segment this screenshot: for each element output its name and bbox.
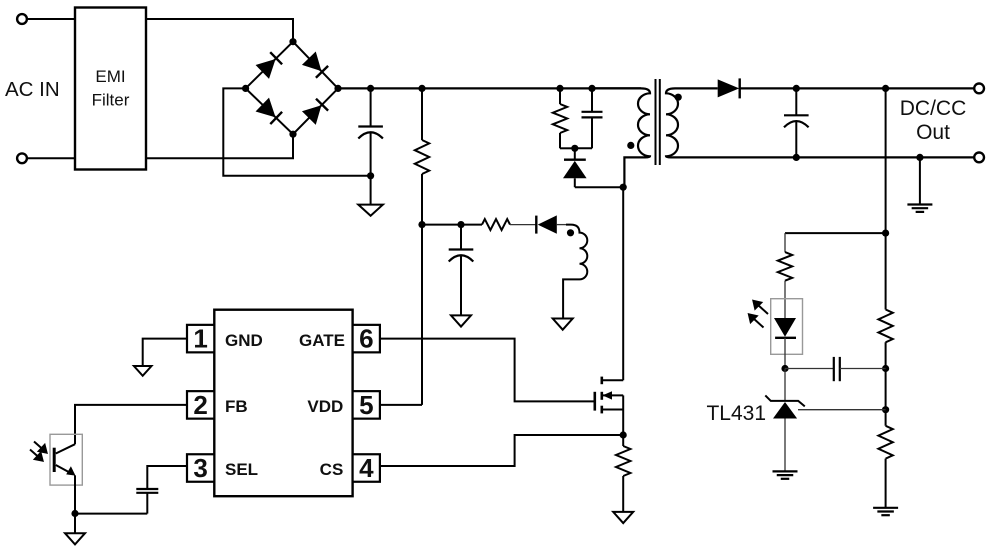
terminal DC out bottom	[974, 153, 984, 163]
transformer core	[656, 79, 660, 165]
node aux winding dot	[567, 229, 574, 236]
wire secondary return	[671, 156, 974, 158]
resistor R5 divider lower	[878, 426, 892, 459]
terminal AC line input top	[17, 14, 27, 24]
ground (sense)	[613, 512, 633, 523]
EMI filter block	[75, 8, 146, 170]
wire	[885, 459, 887, 508]
MOSFET Q2	[595, 187, 623, 435]
svg-text:SEL: SEL	[225, 460, 258, 479]
wire	[785, 232, 886, 234]
node bridge bottom	[289, 131, 296, 138]
shunt regulator TL431 U2	[765, 395, 805, 471]
wire	[421, 225, 423, 405]
wire	[510, 224, 536, 226]
wire	[146, 19, 293, 42]
capacitor C3 snubber	[575, 88, 603, 148]
node output cap bottom	[793, 154, 800, 161]
node output cap top	[793, 85, 800, 92]
diode D7 output	[718, 78, 740, 98]
node output ground junction	[916, 154, 923, 161]
label TL431	[706, 402, 766, 425]
optocoupler LED box	[771, 299, 803, 355]
bridge diode D2 (top to right)	[293, 42, 338, 89]
wire	[27, 157, 75, 159]
wire	[784, 369, 786, 401]
ground earth (TL431)	[773, 471, 798, 478]
node VDD cap top	[457, 221, 464, 228]
wire	[421, 174, 423, 225]
wire main DC bus	[338, 87, 641, 89]
node VDD supply junction	[418, 221, 425, 228]
diode D6 clamp	[563, 148, 587, 187]
pin label VDD	[307, 397, 343, 416]
svg-text:6: 6	[359, 324, 373, 354]
optocoupler phototransistor Q1	[54, 444, 75, 513]
light arrows (transistor)	[30, 442, 47, 461]
optocoupler transistor box	[50, 434, 82, 485]
resistor R6 led	[778, 252, 792, 281]
ground (primary)	[358, 205, 383, 216]
wire VDD	[380, 404, 422, 406]
node snubber bottom junction	[571, 145, 578, 152]
pin box 1	[187, 324, 214, 354]
transformer primary winding	[592, 88, 650, 187]
aux winding L1	[563, 225, 587, 319]
wire	[575, 186, 623, 188]
transformer secondary winding	[666, 88, 678, 157]
node bulk cap top	[367, 85, 374, 92]
bridge diode D1 (left to top)	[246, 42, 293, 89]
pin box 2	[187, 390, 214, 420]
wire	[740, 87, 974, 89]
node drain junction	[620, 184, 627, 191]
node bridge left	[242, 85, 249, 92]
svg-text:VDD: VDD	[307, 397, 343, 416]
pin box 4	[353, 453, 380, 483]
pin label GND	[225, 331, 263, 350]
capacitor C1 bulk	[358, 88, 383, 175]
wire	[885, 342, 887, 426]
node fb cap right	[882, 365, 889, 372]
ground (vdd cap)	[451, 315, 471, 326]
wire	[147, 466, 187, 489]
svg-text:CS: CS	[320, 460, 344, 479]
bridge diode D4 (bottom to right)	[293, 88, 338, 134]
svg-text:5: 5	[359, 390, 373, 420]
node tl431 cathode junction	[781, 365, 788, 372]
capacitor C2 vdd	[449, 225, 474, 316]
capacitor C4 output	[784, 88, 809, 157]
pin box 5	[353, 390, 380, 420]
wire	[27, 18, 75, 20]
svg-text:GND: GND	[225, 331, 263, 350]
wire	[675, 87, 718, 89]
svg-text:TL431: TL431	[706, 402, 766, 425]
pin label GATE	[299, 331, 345, 350]
node feedback top junction	[882, 230, 889, 237]
capacitor C5 feedback	[785, 357, 886, 381]
IC U1 body	[214, 310, 352, 497]
node negative rail junction	[367, 172, 374, 179]
wire	[422, 224, 482, 226]
wire	[74, 514, 76, 534]
terminal DC out top	[974, 84, 984, 94]
node snubber R top	[556, 85, 563, 92]
resistor R2 vdd	[482, 219, 510, 230]
resistor R1 startup	[415, 140, 429, 174]
node emitter junction	[71, 510, 78, 517]
resistor R7 sense	[616, 435, 630, 512]
ground (IC gnd)	[134, 366, 152, 376]
wire	[919, 157, 921, 204]
wire	[370, 176, 372, 205]
node bridge top	[289, 38, 296, 45]
resistor R3 snubber	[553, 88, 575, 148]
terminal AC line input bottom	[17, 153, 27, 163]
node bridge right	[334, 85, 341, 92]
light arrows (LED)	[749, 301, 768, 328]
svg-text:1: 1	[193, 324, 207, 354]
svg-text:4: 4	[359, 453, 374, 483]
svg-text:EMI: EMI	[95, 67, 125, 86]
svg-text:DC/CC: DC/CC	[900, 97, 967, 120]
wire	[784, 281, 786, 318]
node output sense top	[882, 85, 889, 92]
bridge diode D3 (left to bottom)	[246, 88, 293, 134]
capacitor C6 sel	[75, 489, 158, 514]
transformer secondary dot	[675, 94, 682, 101]
pin label FB	[225, 397, 248, 416]
svg-text:Out: Out	[916, 121, 950, 144]
transformer primary dot	[627, 142, 634, 149]
ground earth (divider)	[873, 508, 898, 515]
wire	[885, 88, 887, 309]
node tl431 ref junction	[882, 406, 889, 413]
pin label CS	[320, 460, 344, 479]
pin label SEL	[225, 460, 258, 479]
svg-text:GATE: GATE	[299, 331, 345, 350]
node startup resistor top	[418, 85, 425, 92]
svg-text:Filter: Filter	[92, 91, 130, 110]
label DC/CC Out	[900, 97, 967, 144]
wire	[798, 409, 886, 411]
svg-text:3: 3	[193, 453, 207, 483]
ground earth (output)	[907, 205, 932, 212]
optocoupler LED D8	[774, 318, 796, 369]
label AC IN	[5, 78, 60, 101]
ground (aux winding)	[553, 319, 573, 330]
pin box 3	[187, 453, 214, 483]
wire GATE	[380, 339, 595, 402]
node source junction	[620, 431, 627, 438]
svg-text:2: 2	[193, 390, 207, 420]
wire CS	[380, 435, 620, 466]
svg-text:AC IN: AC IN	[5, 78, 60, 101]
wire	[223, 88, 370, 175]
wire	[75, 405, 187, 444]
wire	[421, 88, 423, 140]
pin box 6	[353, 324, 380, 354]
node snubber C top	[588, 85, 595, 92]
ground (opto)	[65, 533, 85, 544]
svg-text:FB: FB	[225, 397, 248, 416]
resistor R4 divider upper	[878, 310, 892, 343]
wire	[143, 339, 187, 366]
wire	[146, 134, 293, 158]
wire	[784, 233, 786, 252]
diode D5 vdd	[536, 215, 566, 233]
